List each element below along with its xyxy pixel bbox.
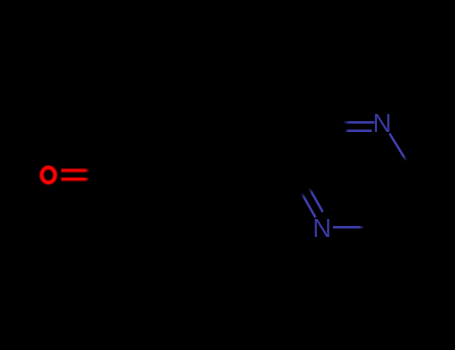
double bond N1=C2 inner line bbox=[346, 130, 372, 133]
double bond C=O upper line bbox=[61, 168, 89, 173]
atom O (ketone oxygen) bbox=[42, 168, 55, 183]
double bond N4=C3 inner line bbox=[309, 188, 323, 212]
svg-text:N: N bbox=[373, 108, 392, 138]
double bond C=O lower line bbox=[61, 177, 88, 182]
double bond N1=C2 main line bbox=[343, 121, 375, 124]
single bond N4-C5 bbox=[333, 226, 364, 229]
single bond N1-C6 bbox=[390, 134, 407, 162]
double bond N4=C3 main line bbox=[302, 193, 316, 218]
